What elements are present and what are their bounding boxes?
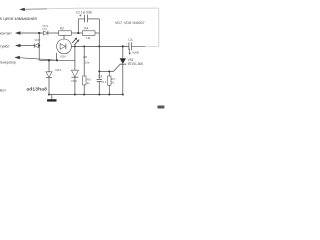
svg-text:контакт: контакт: [0, 32, 12, 36]
wire top-left dark segment: [24, 8, 47, 11]
wire top bus (faded): [24, 8, 159, 46]
node junctions on bus: [48, 94, 50, 96]
svg-text:51: 51: [111, 80, 115, 84]
node junction VS1 anode: [122, 45, 124, 47]
node junction C2 left leg: [77, 32, 79, 34]
diode VD1: [44, 31, 48, 35]
LED arrows: [72, 39, 76, 43]
node junction A: [38, 32, 40, 34]
capacitor C4: [128, 42, 130, 50]
wire input 3: [20, 45, 34, 47]
node junction gate/C3: [98, 70, 100, 72]
svg-text:VD4: VD4: [60, 54, 66, 58]
watermark bottom-right: [157, 106, 164, 109]
wire mid y=46.4: [71, 45, 128, 47]
node junction R5 tap: [83, 45, 85, 47]
svg-text:ВТ151-800: ВТ151-800: [128, 62, 144, 66]
wire bottom bus: [49, 94, 123, 96]
svg-text:10к: 10к: [85, 60, 90, 64]
svg-text:С2 1м 50В: С2 1м 50В: [76, 10, 93, 14]
node junction gate/R7: [108, 70, 110, 72]
resistor R5 (vertical): [83, 46, 85, 76]
wire thyristor gate: [114, 65, 120, 72]
capacitor C3 (vertical): [98, 33, 100, 79]
wire input 2: [20, 32, 44, 34]
svg-text:R2: R2: [60, 26, 64, 30]
ground: [51, 95, 53, 100]
arrow down below C4: [129, 49, 131, 53]
svg-text:тумбл: тумбл: [0, 44, 9, 48]
arrow terminal input 2: [15, 31, 20, 34]
svg-text:С4: С4: [128, 38, 132, 42]
wire LED anode stub: [63, 35, 65, 39]
svg-text:С3: С3: [98, 74, 102, 78]
resistor R7 (vertical, gate): [108, 71, 110, 76]
svg-text:VD6: VD6: [71, 79, 77, 83]
resistor R4: [82, 31, 95, 36]
svg-text:600В: 600В: [132, 51, 139, 55]
wire LED cathode lead: [55, 53, 57, 61]
node junction C3 cross: [98, 45, 100, 47]
wire input 4 (generator): [19, 58, 56, 61]
diode VD2: [33, 43, 35, 47]
resistor R2: [59, 31, 72, 36]
svg-text:генератор: генератор: [0, 61, 16, 65]
svg-text:к цепи замыкания: к цепи замыкания: [0, 16, 37, 21]
polarity plus of C2: [79, 14, 81, 16]
svg-text:R6: R6: [83, 55, 87, 59]
svg-text:VD2: VD2: [34, 38, 40, 42]
svg-text:Вкл: Вкл: [0, 89, 6, 93]
capacitor C2 loop: [77, 19, 79, 33]
LED VD4 (circle with diode): [57, 39, 72, 54]
node junction zener tap: [48, 59, 50, 61]
svg-text:VD3: VD3: [55, 68, 61, 72]
node junction LED tap: [56, 59, 58, 61]
wire gate row y=71.4: [99, 70, 113, 72]
svg-text:VD7, VD8 1N4007: VD7, VD8 1N4007: [115, 21, 145, 25]
node junction on vertical A: [38, 45, 40, 47]
wire vertical A: [38, 33, 40, 60]
svg-text:К52: К52: [42, 27, 47, 31]
svg-text:0,1: 0,1: [102, 80, 107, 84]
wire R4 to corner: [95, 32, 99, 34]
arrow terminal input 4: [14, 56, 19, 59]
svg-text:ad13ha8: ad13ha8: [26, 86, 47, 92]
diode VD6: [74, 46, 76, 70]
svg-text:R4: R4: [84, 26, 88, 30]
thyristor VS1: [122, 46, 124, 58]
arrow terminal input 3: [15, 44, 20, 47]
wire between R2 and R4: [71, 32, 82, 34]
wire row y=60.3: [39, 59, 75, 61]
zener VD3: [48, 60, 50, 71]
arrow terminal top-left: [19, 8, 25, 11]
node junction VD6 tap: [74, 45, 76, 47]
svg-text:1М: 1М: [86, 36, 91, 40]
